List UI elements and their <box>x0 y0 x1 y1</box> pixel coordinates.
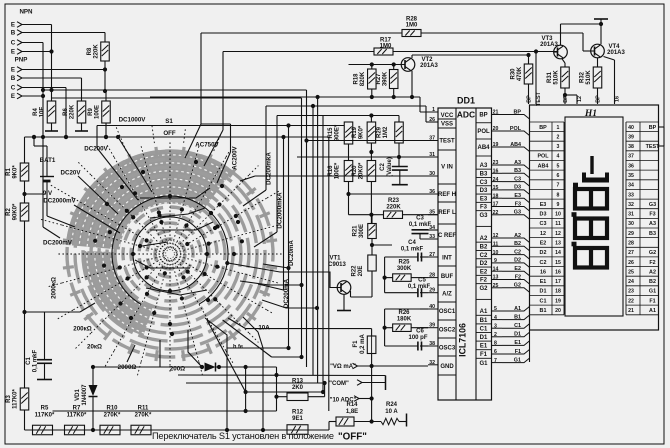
svg-text:200кΩ: 200кΩ <box>73 326 91 333</box>
svg-text:G3: G3 <box>479 213 488 219</box>
svg-text:"VΩ mA": "VΩ mA" <box>330 364 356 370</box>
svg-text:POL: POL <box>510 126 522 132</box>
svg-text:A1: A1 <box>480 309 488 315</box>
svg-text:AB4: AB4 <box>477 145 490 151</box>
svg-text:5: 5 <box>557 163 560 169</box>
svg-text:R4: R4 <box>33 108 39 116</box>
svg-text:R10: R10 <box>106 406 118 412</box>
svg-text:33: 33 <box>628 192 634 198</box>
svg-text:180K: 180K <box>397 317 412 323</box>
svg-text:BAT1: BAT1 <box>40 157 56 164</box>
svg-text:D2: D2 <box>540 250 547 256</box>
svg-text:"OFF": "OFF" <box>338 432 367 443</box>
svg-text:R29: R29 <box>377 126 383 138</box>
svg-text:BP: BP <box>539 125 547 131</box>
svg-text:16: 16 <box>555 269 561 275</box>
svg-text:0,1 mkF: 0,1 mkF <box>33 350 39 373</box>
svg-text:B3: B3 <box>514 168 521 174</box>
svg-text:R14: R14 <box>346 402 358 408</box>
svg-text:BP: BP <box>596 95 602 103</box>
svg-text:0,2 mA: 0,2 mA <box>360 334 366 354</box>
svg-text:9E1: 9E1 <box>292 416 303 422</box>
svg-text:1M0: 1M0 <box>380 44 392 50</box>
svg-text:1: 1 <box>557 125 560 131</box>
svg-text:DD1: DD1 <box>457 96 475 106</box>
svg-text:VT1: VT1 <box>329 256 341 262</box>
svg-text:32: 32 <box>628 202 634 208</box>
svg-text:REF L: REF L <box>438 210 456 216</box>
svg-text:VSS: VSS <box>441 122 453 128</box>
svg-text:D3: D3 <box>540 212 547 218</box>
svg-text:AC200V: AC200V <box>232 145 239 169</box>
svg-text:100E: 100E <box>95 105 101 119</box>
svg-text:R3: R3 <box>6 395 12 403</box>
svg-text:100E*: 100E* <box>335 162 341 179</box>
svg-text:C2: C2 <box>480 253 488 259</box>
svg-text:OSC2: OSC2 <box>439 328 456 334</box>
svg-text:470K: 470K <box>517 66 523 81</box>
svg-text:POL: POL <box>537 154 549 160</box>
svg-text:12: 12 <box>540 231 546 237</box>
svg-text:GND: GND <box>440 364 454 370</box>
svg-text:F1: F1 <box>515 349 521 355</box>
svg-text:R9: R9 <box>88 108 94 116</box>
svg-text:G1: G1 <box>649 289 656 295</box>
svg-text:E: E <box>11 93 15 100</box>
svg-text:G1: G1 <box>479 361 488 367</box>
svg-text:B2: B2 <box>649 279 656 285</box>
svg-text:1N4007: 1N4007 <box>82 384 88 406</box>
svg-text:38: 38 <box>628 144 634 150</box>
svg-text:R15: R15 <box>328 127 334 139</box>
svg-text:20: 20 <box>555 308 561 314</box>
svg-text:BP: BP <box>563 95 569 103</box>
svg-text:E2: E2 <box>540 241 547 247</box>
svg-text:C2: C2 <box>514 249 521 255</box>
svg-text:C3: C3 <box>416 216 424 222</box>
svg-text:31: 31 <box>628 212 634 218</box>
svg-text:C1: C1 <box>26 357 32 365</box>
svg-text:B3: B3 <box>480 172 488 178</box>
svg-text:19: 19 <box>555 298 561 304</box>
svg-text:220K: 220K <box>94 44 100 59</box>
svg-text:G2: G2 <box>479 286 488 292</box>
svg-text:V IN: V IN <box>441 165 453 171</box>
svg-text:D1: D1 <box>514 332 521 338</box>
svg-text:R7: R7 <box>73 406 81 412</box>
svg-text:E2: E2 <box>514 266 521 272</box>
svg-text:E1: E1 <box>540 279 547 285</box>
svg-text:2K0: 2K0 <box>292 385 304 391</box>
svg-text:G1: G1 <box>514 357 521 363</box>
svg-text:20K0*: 20K0* <box>359 162 365 179</box>
svg-text:24: 24 <box>628 279 634 285</box>
svg-text:8: 8 <box>557 192 560 198</box>
svg-text:OSC1: OSC1 <box>439 309 456 315</box>
svg-text:12: 12 <box>555 231 561 237</box>
svg-text:B1: B1 <box>540 308 547 314</box>
svg-text:F2: F2 <box>649 260 655 266</box>
svg-text:117K0*: 117K0* <box>13 388 19 408</box>
svg-text:B: B <box>11 75 16 82</box>
svg-text:201А3: 201А3 <box>540 42 558 48</box>
svg-text:1,8E: 1,8E <box>346 409 358 415</box>
svg-text:"COM": "COM" <box>329 381 349 387</box>
svg-text:F1: F1 <box>649 298 655 304</box>
svg-text:R11: R11 <box>138 406 149 412</box>
svg-text:F1: F1 <box>480 352 488 358</box>
svg-text:B1: B1 <box>514 314 521 320</box>
svg-text:D1: D1 <box>480 335 488 341</box>
svg-text:23: 23 <box>628 289 634 295</box>
svg-text:2: 2 <box>557 134 560 140</box>
svg-text:10 A: 10 A <box>385 409 398 415</box>
svg-text:A2: A2 <box>649 269 656 275</box>
svg-text:21: 21 <box>628 308 634 314</box>
svg-text:VCC: VCC <box>441 113 454 119</box>
svg-text:0,1 mkF: 0,1 mkF <box>401 247 424 253</box>
svg-text:25: 25 <box>628 269 634 275</box>
svg-text:AB4: AB4 <box>538 163 549 169</box>
svg-text:C2: C2 <box>540 260 547 266</box>
svg-text:F3: F3 <box>480 205 488 211</box>
svg-text:G2: G2 <box>514 283 521 289</box>
svg-text:C1: C1 <box>480 326 488 332</box>
svg-text:ADC: ADC <box>457 110 475 120</box>
svg-text:B3: B3 <box>649 231 656 237</box>
svg-text:R32: R32 <box>580 71 586 83</box>
svg-text:R26: R26 <box>398 310 410 316</box>
svg-text:C REF: C REF <box>438 233 456 239</box>
svg-text:90K0*: 90K0* <box>13 203 19 220</box>
svg-text:34: 34 <box>628 183 634 189</box>
svg-text:28: 28 <box>628 241 634 247</box>
svg-text:20кΩ: 20кΩ <box>87 344 102 351</box>
svg-text:E3: E3 <box>480 196 488 202</box>
svg-text:R16: R16 <box>328 165 334 177</box>
svg-text:D1: D1 <box>540 289 547 295</box>
svg-text:18: 18 <box>555 289 561 295</box>
svg-text:R24: R24 <box>386 402 398 408</box>
svg-text:Переключатель S1 установлен в: Переключатель S1 установлен в положение <box>152 431 336 441</box>
svg-text:C1: C1 <box>540 298 547 304</box>
svg-text:REF H: REF H <box>438 192 456 198</box>
svg-text:17: 17 <box>555 279 561 285</box>
svg-text:E3: E3 <box>540 202 547 208</box>
svg-text:A3: A3 <box>480 163 488 169</box>
svg-text:40: 40 <box>628 125 634 131</box>
svg-text:A2: A2 <box>480 236 488 242</box>
svg-text:12: 12 <box>577 96 583 102</box>
svg-text:B1: B1 <box>480 318 488 324</box>
svg-text:NPN: NPN <box>19 9 33 16</box>
svg-text:6: 6 <box>557 173 560 179</box>
svg-text:C5: C5 <box>418 278 426 284</box>
svg-text:BP: BP <box>514 109 522 115</box>
svg-text:201А3: 201А3 <box>420 63 438 69</box>
svg-text:A2: A2 <box>514 233 521 239</box>
svg-text:39: 39 <box>628 134 634 140</box>
svg-text:37: 37 <box>628 154 634 160</box>
svg-text:PNP: PNP <box>15 57 28 64</box>
svg-text:R8: R8 <box>87 47 93 55</box>
svg-text:220K: 220K <box>386 205 401 211</box>
svg-text:B: B <box>11 30 16 37</box>
svg-text:C6: C6 <box>416 329 424 335</box>
svg-text:TEST: TEST <box>439 139 455 145</box>
svg-text:AB4: AB4 <box>510 142 521 148</box>
svg-text:R1: R1 <box>6 168 12 176</box>
svg-text:26: 26 <box>628 260 634 266</box>
svg-text:E2: E2 <box>480 269 488 275</box>
svg-text:R19: R19 <box>352 126 358 138</box>
svg-text:D2: D2 <box>480 261 488 267</box>
svg-text:C3: C3 <box>480 180 488 186</box>
svg-text:BP: BP <box>479 113 487 119</box>
svg-text:INT: INT <box>442 256 452 262</box>
svg-text:DC1000V: DC1000V <box>119 117 147 124</box>
svg-text:270K*: 270K* <box>135 413 152 419</box>
svg-text:C3: C3 <box>540 221 547 227</box>
svg-text:R21: R21 <box>353 225 359 237</box>
svg-text:29: 29 <box>628 231 634 237</box>
svg-text:1M2: 1M2 <box>383 126 389 138</box>
svg-text:E: E <box>11 22 15 29</box>
svg-text:R18: R18 <box>354 73 360 85</box>
svg-text:15: 15 <box>555 260 561 266</box>
svg-text:A1: A1 <box>649 308 656 314</box>
svg-text:9K0*: 9K0* <box>359 125 365 139</box>
svg-text:9K0*: 9K0* <box>13 165 19 179</box>
svg-text:11: 11 <box>555 221 561 227</box>
svg-text:4: 4 <box>557 154 560 160</box>
svg-text:C4: C4 <box>408 240 416 246</box>
svg-text:h fe: h fe <box>233 344 243 350</box>
svg-text:300K: 300K <box>397 266 412 272</box>
svg-text:390K: 390K <box>383 71 389 86</box>
svg-text:300E: 300E <box>359 224 365 238</box>
svg-text:10A: 10A <box>258 325 270 332</box>
svg-text:TEST: TEST <box>536 91 542 105</box>
svg-text:C3: C3 <box>514 176 521 182</box>
svg-text:A3: A3 <box>649 221 656 227</box>
svg-text:G2: G2 <box>649 250 656 256</box>
svg-text:R30: R30 <box>511 68 517 80</box>
svg-text:900E*: 900E* <box>335 124 341 141</box>
svg-text:R5: R5 <box>41 406 49 412</box>
svg-text:510K: 510K <box>586 70 592 85</box>
svg-text:14: 14 <box>555 250 561 256</box>
svg-text:F3: F3 <box>515 201 521 207</box>
svg-text:BUF: BUF <box>441 274 454 280</box>
svg-text:R23: R23 <box>388 198 400 204</box>
svg-text:C: C <box>11 85 16 92</box>
svg-text:2000кΩ: 2000кΩ <box>51 277 58 299</box>
svg-text:R12: R12 <box>292 410 304 416</box>
svg-text:E: E <box>11 49 15 56</box>
svg-text:0,1 mkF: 0,1 mkF <box>409 222 432 228</box>
svg-text:0,1 mkF: 0,1 mkF <box>408 284 431 290</box>
svg-text:TEST: TEST <box>646 144 660 150</box>
svg-text:OFF: OFF <box>163 130 176 137</box>
svg-text:270K*: 270K* <box>104 413 121 419</box>
svg-text:BP: BP <box>527 95 533 103</box>
svg-text:C: C <box>11 40 16 47</box>
svg-text:B2: B2 <box>480 245 488 251</box>
svg-text:POL: POL <box>477 129 490 135</box>
svg-text:100 pF: 100 pF <box>408 335 427 341</box>
svg-text:36: 36 <box>628 163 634 169</box>
svg-text:E: E <box>11 67 15 74</box>
svg-text:R6: R6 <box>63 108 69 116</box>
svg-text:30: 30 <box>628 221 634 227</box>
svg-text:35: 35 <box>628 173 634 179</box>
svg-text:F1: F1 <box>353 340 359 348</box>
svg-text:1M0: 1M0 <box>406 23 418 29</box>
svg-text:G3: G3 <box>514 210 521 216</box>
svg-text:R31: R31 <box>547 71 553 83</box>
svg-text:220K: 220K <box>70 104 76 119</box>
svg-text:VD1: VD1 <box>75 389 81 401</box>
svg-text:R27: R27 <box>376 73 382 85</box>
svg-text:9 V: 9 V <box>43 190 53 197</box>
svg-text:DC200mV: DC200mV <box>43 240 73 247</box>
svg-text:F2: F2 <box>515 274 521 280</box>
svg-text:20E: 20E <box>358 266 364 277</box>
svg-text:C9013: C9013 <box>328 262 346 268</box>
svg-text:9: 9 <box>557 202 560 208</box>
svg-text:G3: G3 <box>649 202 656 208</box>
svg-text:10E: 10E <box>40 107 46 118</box>
svg-text:D3: D3 <box>514 185 521 191</box>
svg-text:ICL7106: ICL7106 <box>458 323 468 357</box>
svg-text:D3: D3 <box>480 188 488 194</box>
svg-text:R25: R25 <box>398 260 410 266</box>
svg-text:10: 10 <box>555 212 561 218</box>
svg-text:DC2000mV: DC2000mV <box>43 198 76 205</box>
svg-text:R20: R20 <box>352 165 358 177</box>
svg-text:DC200V: DC200V <box>84 146 108 153</box>
svg-text:B2: B2 <box>514 241 521 247</box>
svg-text:F3: F3 <box>649 212 655 218</box>
svg-text:F2: F2 <box>480 278 488 284</box>
svg-text:201А3: 201А3 <box>607 50 625 56</box>
svg-text:R2: R2 <box>6 208 12 216</box>
svg-text:R13: R13 <box>292 379 304 385</box>
svg-text:22: 22 <box>628 298 634 304</box>
svg-text:E1: E1 <box>514 340 521 346</box>
svg-text:117K0*: 117K0* <box>67 413 87 419</box>
svg-text:16: 16 <box>540 269 546 275</box>
svg-text:S1: S1 <box>165 118 173 125</box>
svg-text:A/Z: A/Z <box>442 292 452 298</box>
svg-text:3: 3 <box>557 144 560 150</box>
svg-text:A1: A1 <box>514 306 521 312</box>
svg-text:820K: 820K <box>360 71 366 86</box>
svg-text:OSC3: OSC3 <box>439 346 456 352</box>
svg-text:7: 7 <box>557 183 560 189</box>
svg-text:R22: R22 <box>352 265 358 277</box>
svg-text:117K0*: 117K0* <box>35 413 55 419</box>
svg-text:510K: 510K <box>554 70 560 85</box>
svg-text:A3: A3 <box>514 160 521 166</box>
svg-text:BP: BP <box>649 125 657 131</box>
svg-text:C2: C2 <box>380 163 386 171</box>
svg-text:13: 13 <box>555 241 561 247</box>
svg-text:E3: E3 <box>514 193 521 199</box>
svg-text:D2: D2 <box>514 258 521 264</box>
svg-text:C1: C1 <box>514 323 521 329</box>
svg-text:DC20V: DC20V <box>61 170 82 177</box>
svg-text:E1: E1 <box>480 344 488 350</box>
svg-text:27: 27 <box>628 250 634 256</box>
svg-text:16: 16 <box>615 96 621 102</box>
